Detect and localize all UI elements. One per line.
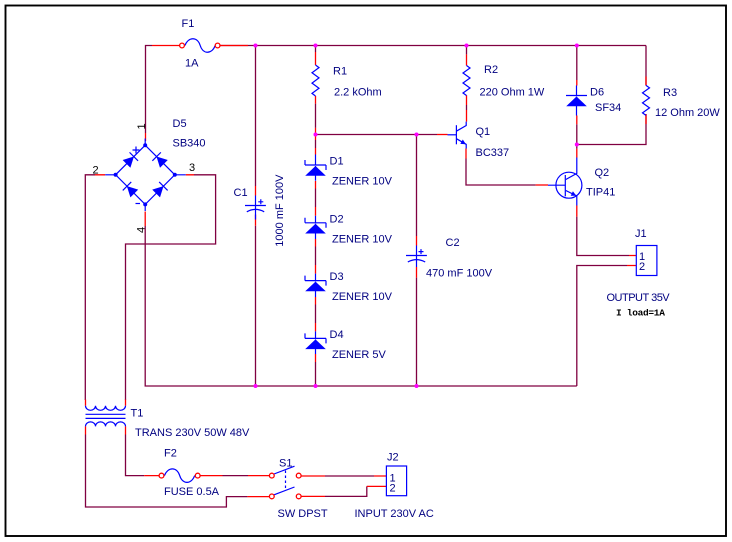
svg-text:J2: J2 <box>387 452 399 464</box>
svg-text:INPUT 230V AC: INPUT 230V AC <box>355 508 434 520</box>
svg-text:2: 2 <box>639 261 645 273</box>
svg-text:TIP41: TIP41 <box>586 187 615 199</box>
svg-text:OUTPUT 35V: OUTPUT 35V <box>607 292 671 304</box>
svg-text:ZENER 10V: ZENER 10V <box>332 176 393 188</box>
wire Q2 collector stub <box>576 145 578 149</box>
wire top-left corner to bridge pin 1 <box>146 46 153 134</box>
wire mid node to Q1 base <box>316 134 438 136</box>
red lead stubs S1 <box>247 476 325 497</box>
transistor Q1 <box>448 122 467 149</box>
svg-text:BC337: BC337 <box>476 147 510 159</box>
svg-text:J1: J1 <box>635 228 647 240</box>
fuse F1 <box>180 39 220 53</box>
transistor Q2 <box>548 158 582 206</box>
switch S1 <box>269 466 301 499</box>
resistor R2 <box>463 66 470 96</box>
zener diode D3 <box>305 274 326 297</box>
red lead stubs bridge pins <box>95 133 194 226</box>
connector J1 <box>636 246 657 276</box>
resistor R3 <box>643 85 650 115</box>
svg-text:SB340: SB340 <box>173 138 206 150</box>
svg-text:220 Ohm 1W: 220 Ohm 1W <box>480 87 545 99</box>
connector J2 <box>386 466 406 496</box>
svg-text:TRANS 230V 50W 48V: TRANS 230V 50W 48V <box>135 427 250 439</box>
svg-text:4: 4 <box>135 227 147 233</box>
red lead stubs R2 <box>466 54 468 121</box>
svg-text:R1: R1 <box>333 66 347 78</box>
wire C1 branch <box>255 46 257 387</box>
junction D6 top <box>575 44 579 48</box>
junction R2 top <box>465 44 469 48</box>
svg-text:1A: 1A <box>185 58 199 70</box>
junction zener bottom <box>314 384 318 388</box>
wire C2 branch <box>416 135 418 387</box>
wire S1 upper to J2 pin 1 <box>325 475 374 477</box>
junction C1 top <box>254 44 258 48</box>
red lead stubs F2 <box>144 475 222 477</box>
zener diode D4 <box>305 331 326 354</box>
red lead stubs zener chain <box>315 148 317 362</box>
junction D6 bottom <box>575 143 579 147</box>
svg-text:R3: R3 <box>663 87 677 99</box>
svg-text:C1: C1 <box>234 187 248 199</box>
junction C2 bottom <box>415 384 419 388</box>
red lead stubs R1 <box>315 52 317 140</box>
svg-text:1000 mF 100V: 1000 mF 100V <box>274 174 286 247</box>
svg-text:1: 1 <box>136 123 148 129</box>
zener diode D2 <box>305 216 326 239</box>
svg-text:2: 2 <box>390 483 396 495</box>
red lead stubs J1 <box>627 256 636 266</box>
svg-text:D6: D6 <box>590 87 604 99</box>
svg-text:F1: F1 <box>182 18 195 30</box>
svg-text:C2: C2 <box>446 237 460 249</box>
wire R1 zener branch <box>315 46 317 387</box>
svg-text:D4: D4 <box>330 329 344 341</box>
red lead stub Q1 base <box>437 134 448 136</box>
svg-text:SF34: SF34 <box>595 102 621 114</box>
bridge rectifier D5 <box>105 139 186 212</box>
svg-text:T1: T1 <box>131 408 144 420</box>
wire transformer secondary right to fuse F2 <box>126 435 145 476</box>
wire bridge pin 4 to bottom rail <box>145 226 577 386</box>
red lead stubs F1 <box>152 45 248 47</box>
svg-text:S1: S1 <box>279 458 292 470</box>
svg-text:D3: D3 <box>330 271 344 283</box>
svg-text:F2: F2 <box>164 448 177 460</box>
diode D6 <box>566 86 587 116</box>
capacitor C2 <box>406 246 427 268</box>
wire F2 to S1 upper pole <box>223 475 249 477</box>
red lead stubs R3 <box>645 77 647 125</box>
red lead stubs J2 <box>367 476 387 486</box>
fuse F2 <box>159 469 200 483</box>
wire S1 lower to J2 pin 2 <box>325 486 367 496</box>
wire bridge pin 3 to transformer primary right <box>126 175 216 400</box>
svg-text:SW DPST: SW DPST <box>278 508 328 520</box>
svg-text:R2: R2 <box>484 64 498 76</box>
svg-text:470 mF 100V: 470 mF 100V <box>426 268 493 280</box>
red lead stubs D6 <box>576 80 578 124</box>
svg-text:D2: D2 <box>330 214 344 226</box>
junction R1 bottom node <box>314 133 318 137</box>
wire Q1 emitter to Q2 base <box>466 159 536 186</box>
transformer T1 <box>86 406 126 427</box>
junction R1 top <box>314 44 318 48</box>
svg-text:FUSE 0.5A: FUSE 0.5A <box>164 486 220 498</box>
capacitor C1 <box>245 196 266 220</box>
svg-text:ZENER 10V: ZENER 10V <box>332 234 393 246</box>
red lead stubs T1 <box>86 400 126 435</box>
red lead stubs C1 <box>255 186 257 226</box>
wire R2 branch <box>466 46 468 111</box>
red lead stubs Q2 collector emitter <box>576 149 578 217</box>
svg-text:2: 2 <box>93 165 99 177</box>
wire transformer secondary left to switch lower pole <box>86 435 248 508</box>
red lead stub Q1 emitter <box>465 149 467 159</box>
wire Q2 emitter to J1 pin 1 <box>577 217 629 256</box>
svg-text:2.2 kOhm: 2.2 kOhm <box>334 87 382 99</box>
svg-text:Q2: Q2 <box>595 167 610 179</box>
svg-text:ZENER 5V: ZENER 5V <box>332 349 386 361</box>
wire R3 branch <box>577 46 646 145</box>
svg-text:3: 3 <box>189 162 195 174</box>
svg-text:Q1: Q1 <box>476 126 491 138</box>
svg-text:D1: D1 <box>330 156 344 168</box>
wire D6 branch <box>576 46 578 145</box>
svg-text:D5: D5 <box>173 118 187 130</box>
svg-text:ZENER 10V: ZENER 10V <box>332 291 393 303</box>
junction C1 bottom <box>254 384 258 388</box>
red lead stub Q2 base <box>536 184 548 186</box>
resistor R1 <box>312 65 319 96</box>
junction C2 top <box>415 133 419 137</box>
wire J1 pin 2 down to bottom rail <box>577 266 627 387</box>
wire bridge pin 2 to transformer primary left <box>85 175 95 400</box>
zener diode D1 <box>305 155 326 181</box>
svg-text:I load=1A: I load=1A <box>616 308 665 319</box>
red lead stubs C2 <box>416 236 418 278</box>
wire top rail <box>220 45 646 47</box>
svg-text:12 Ohm 20W: 12 Ohm 20W <box>655 107 720 119</box>
